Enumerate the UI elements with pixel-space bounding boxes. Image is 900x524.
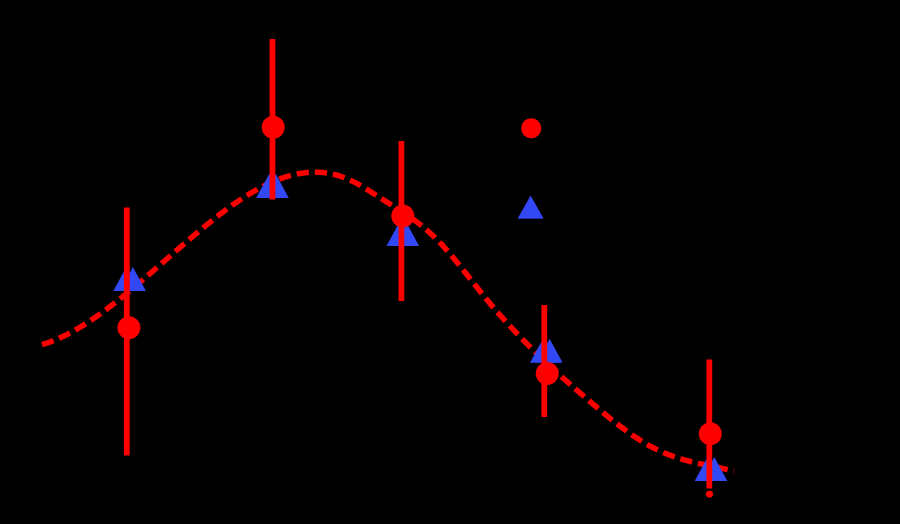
data point 4 red circle marker: [536, 362, 559, 385]
legend red circle marker: [521, 118, 541, 138]
data point 1 blue triangle markers: [113, 267, 146, 291]
data point 2 red circle marker: [262, 116, 285, 139]
data point 3 red circle marker: [391, 205, 414, 228]
data point 5 blue triangle markers: [695, 457, 728, 481]
data point 5 red circle marker: [699, 422, 722, 445]
data point 2 blue triangle markers: [256, 174, 289, 198]
data point 1 red circle marker: [117, 316, 140, 339]
data point 5 error bar lower cap blob: [706, 491, 713, 498]
data point 3 blue triangle markers: [387, 222, 420, 246]
data point 5 red error bar: [706, 360, 712, 489]
data point 4 blue triangle markers: [530, 339, 563, 363]
data point 1 red error bar: [124, 208, 130, 456]
data point 4 red error bar: [541, 305, 547, 417]
legend blue triangle marker: [518, 196, 544, 219]
data point 3 red error bar: [398, 141, 404, 301]
red dashed fit curve: [42, 172, 734, 471]
data point 2 red error bar: [270, 39, 276, 200]
